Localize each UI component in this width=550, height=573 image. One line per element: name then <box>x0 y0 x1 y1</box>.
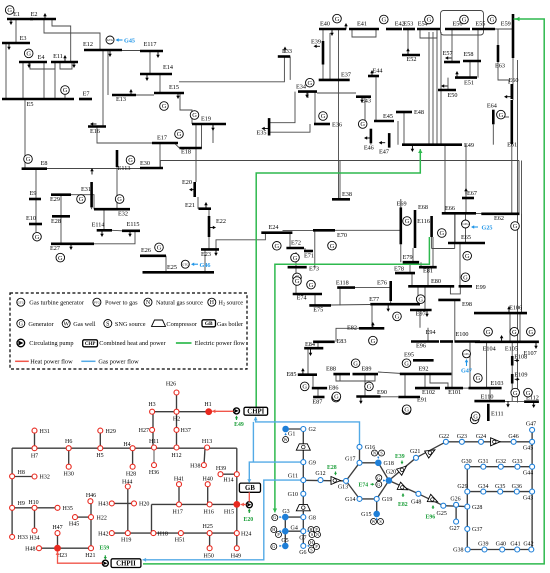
legend H2 source <box>208 298 216 306</box>
wire <box>447 78 449 90</box>
svg-text:Heat power flow: Heat power flow <box>30 359 73 366</box>
gas pipe <box>467 466 532 468</box>
generator G45 <box>402 406 411 415</box>
generator G5 <box>175 130 184 139</box>
generator G12 <box>155 243 164 252</box>
gas node G28 <box>465 504 470 509</box>
legend electric power flow <box>176 342 192 344</box>
heat node H18 <box>151 531 156 536</box>
heat pipe <box>152 412 154 449</box>
wire <box>381 396 399 398</box>
load arrow <box>372 324 374 329</box>
gas node G1 <box>283 426 289 432</box>
svg-text:H21: H21 <box>85 553 95 559</box>
generator G14 <box>306 78 315 87</box>
bus E89 <box>353 373 379 376</box>
gas turbine generator U-G25 <box>462 220 470 228</box>
wire <box>364 374 366 396</box>
svg-text:G47: G47 <box>461 368 472 375</box>
bus E98 <box>438 299 460 302</box>
svg-text:G: G <box>513 390 518 397</box>
wire <box>476 213 483 215</box>
gas node G23 <box>459 439 464 444</box>
gas turbine generator U-G45 <box>106 36 114 44</box>
svg-text:H13: H13 <box>202 439 212 445</box>
svg-text:SNG source: SNG source <box>115 321 146 328</box>
svg-text:E16: E16 <box>90 128 100 135</box>
svg-text:E8: E8 <box>41 160 48 167</box>
svg-text:E118: E118 <box>336 280 349 287</box>
svg-text:G22: G22 <box>439 434 449 440</box>
wire <box>314 294 316 305</box>
bus E58 <box>463 60 481 63</box>
wire <box>15 19 17 43</box>
heat node H38 <box>201 463 206 468</box>
load arrow <box>130 91 132 96</box>
gas pipe <box>468 549 532 551</box>
gas pipe <box>302 429 304 546</box>
svg-text:E99: E99 <box>476 284 486 291</box>
generator G22 <box>497 110 506 119</box>
wire <box>5 43 7 99</box>
generator G46 <box>511 388 520 397</box>
heat pipe <box>152 503 237 505</box>
svg-text:G25: G25 <box>482 225 493 232</box>
wire <box>269 92 295 123</box>
svg-text:G: G <box>427 17 432 24</box>
wire <box>283 230 317 232</box>
gas node G40 <box>500 547 505 552</box>
gas flow to CHPII <box>144 480 301 560</box>
svg-text:E20: E20 <box>182 179 192 186</box>
heat node H45 <box>73 515 78 520</box>
svg-text:G: G <box>157 245 162 252</box>
load arrow <box>507 401 509 406</box>
svg-text:E69: E69 <box>397 201 407 208</box>
wire <box>459 243 461 286</box>
svg-text:E7: E7 <box>83 91 90 98</box>
gas pipe <box>360 462 379 464</box>
svg-text:G: G <box>19 322 24 328</box>
wire <box>22 62 24 99</box>
svg-text:E89: E89 <box>362 366 372 373</box>
wire <box>469 61 471 78</box>
gas node G35 <box>498 489 503 494</box>
heat pipe <box>132 448 134 467</box>
gas node G6 <box>301 543 306 548</box>
generator G25 <box>438 229 447 238</box>
gas node G11 <box>301 478 306 483</box>
generator G20 <box>460 15 469 24</box>
svg-text:G: G <box>272 544 275 549</box>
wire <box>307 348 309 375</box>
wire <box>339 375 341 382</box>
svg-text:E96: E96 <box>416 343 426 350</box>
svg-text:E91: E91 <box>417 397 427 404</box>
wire <box>431 237 433 249</box>
wire <box>460 387 469 389</box>
load arrow <box>411 146 413 151</box>
bus E61 <box>510 100 513 144</box>
wire <box>71 195 94 210</box>
bus E34 <box>298 90 317 93</box>
svg-text:E113: E113 <box>118 165 131 172</box>
wire <box>352 29 376 37</box>
svg-text:E87: E87 <box>312 399 322 406</box>
gas node G34 <box>481 489 486 494</box>
GTG at G20 <box>376 475 382 481</box>
svg-text:E12: E12 <box>83 41 93 48</box>
svg-text:E57: E57 <box>443 50 453 57</box>
svg-text:E35: E35 <box>257 130 267 137</box>
svg-text:E55: E55 <box>475 21 485 28</box>
svg-text:E71: E71 <box>304 253 314 260</box>
wire <box>432 237 434 267</box>
load arrow <box>426 311 428 316</box>
gas node G4 <box>282 528 288 534</box>
bus E15 <box>154 92 184 95</box>
heat pipe <box>39 547 91 549</box>
gas node G37 <box>465 526 470 531</box>
wire <box>355 287 391 289</box>
svg-text:G35: G35 <box>495 484 505 490</box>
load arrow <box>366 137 371 139</box>
gas node G38 <box>465 547 470 552</box>
svg-text:E115: E115 <box>127 221 140 228</box>
heat node H50 <box>207 546 212 551</box>
gas pipe <box>466 467 468 550</box>
svg-text:E104: E104 <box>483 345 496 352</box>
load arrow <box>109 51 111 56</box>
generator G42 <box>510 327 519 336</box>
GB box <box>239 483 260 492</box>
wire <box>295 252 297 267</box>
svg-text:E101: E101 <box>448 389 461 396</box>
svg-text:E82: E82 <box>398 502 408 508</box>
svg-text:E68: E68 <box>418 204 428 211</box>
svg-text:H40: H40 <box>203 477 213 483</box>
wire <box>107 50 109 95</box>
load arrow <box>310 350 312 355</box>
bus E101 <box>445 387 463 390</box>
bus E14 <box>140 73 172 76</box>
generator G11 <box>56 253 65 262</box>
sources at G4 <box>271 527 277 533</box>
heat pipe <box>151 504 153 533</box>
svg-text:E28: E28 <box>327 465 337 471</box>
wire <box>518 161 520 214</box>
svg-text:E83: E83 <box>337 338 347 345</box>
svg-text:H10: H10 <box>28 500 38 506</box>
svg-text:G41: G41 <box>510 542 520 548</box>
svg-text:Power to gas: Power to gas <box>105 300 138 307</box>
bus E27 <box>51 243 94 246</box>
svg-text:E52: E52 <box>407 56 417 63</box>
gas node G25 <box>441 503 446 508</box>
wire <box>159 74 161 93</box>
svg-text:E22: E22 <box>216 218 226 225</box>
svg-text:E106: E106 <box>509 305 522 312</box>
CHPI pump <box>234 408 240 414</box>
generator G39 <box>416 295 425 304</box>
generator G16 <box>358 120 367 129</box>
generator G10 <box>33 232 42 241</box>
gas node G27 <box>454 519 459 524</box>
svg-text:E29: E29 <box>50 196 60 203</box>
svg-text:G36: G36 <box>512 484 522 490</box>
heat node H25 <box>207 531 212 536</box>
svg-text:E38: E38 <box>342 191 352 198</box>
svg-text:E3: E3 <box>20 35 27 42</box>
bus E97 <box>410 309 432 312</box>
heat pipe <box>152 411 209 413</box>
wire <box>428 32 430 145</box>
load arrow <box>10 19 12 24</box>
generator G30 <box>307 280 316 289</box>
svg-text:GTG: GTG <box>182 262 189 266</box>
heat node H13 <box>205 445 210 450</box>
svg-text:G: G <box>512 329 517 336</box>
wire <box>407 29 409 55</box>
generator G4 <box>190 111 199 120</box>
svg-text:H2 source: H2 source <box>218 300 243 307</box>
svg-text:E92: E92 <box>419 366 429 373</box>
wire <box>450 286 460 294</box>
svg-text:G8: G8 <box>309 515 316 521</box>
wire <box>64 94 66 99</box>
svg-text:E13: E13 <box>116 96 126 103</box>
wire <box>519 313 521 342</box>
gas node G47 <box>530 427 535 432</box>
heat node H2 <box>174 409 179 414</box>
bus E64 <box>492 110 495 125</box>
generator G21 <box>488 15 497 24</box>
wire <box>419 310 421 328</box>
bus E8 <box>22 167 47 170</box>
bus E38 <box>332 198 350 201</box>
svg-text:H11: H11 <box>149 439 159 445</box>
wire <box>116 167 118 209</box>
bus E109 <box>511 374 514 384</box>
svg-text:G: G <box>405 218 410 225</box>
bus E59 <box>512 14 515 58</box>
wire <box>403 112 405 145</box>
generator G32 <box>393 312 402 321</box>
bus E87 <box>313 396 324 399</box>
gas node G15 <box>374 511 380 517</box>
bus E9 <box>29 198 41 201</box>
svg-text:H34: H34 <box>29 536 39 542</box>
svg-text:E95: E95 <box>404 352 414 359</box>
bus E63 <box>497 45 500 62</box>
heat node H23 <box>55 545 61 551</box>
wire <box>521 214 523 313</box>
svg-text:G: G <box>58 255 63 262</box>
svg-text:H: H <box>210 300 215 306</box>
wire <box>35 224 37 232</box>
wire <box>312 375 314 388</box>
wire <box>30 62 55 69</box>
bus E42 <box>386 28 402 31</box>
wire <box>289 233 291 248</box>
svg-text:E75: E75 <box>313 307 323 314</box>
heat pipe <box>75 516 91 518</box>
svg-text:H33: H33 <box>18 535 28 541</box>
load arrow <box>263 128 268 130</box>
heat flow GB to H15 <box>242 504 246 506</box>
svg-text:G2: G2 <box>309 427 316 433</box>
svg-text:H31: H31 <box>40 429 50 435</box>
generator G31 <box>293 277 302 286</box>
svg-text:E49: E49 <box>234 422 244 428</box>
bus E17 <box>152 142 178 145</box>
gas pipe <box>346 463 360 481</box>
bus E75 <box>309 304 331 307</box>
load arrow <box>44 15 46 20</box>
bus E74 <box>293 293 322 296</box>
gas pipe <box>446 441 532 443</box>
wire <box>521 161 523 314</box>
heat pipe <box>12 507 57 509</box>
svg-text:G44: G44 <box>523 470 533 476</box>
svg-text:G38: G38 <box>453 548 463 554</box>
gas node G41 <box>515 547 520 552</box>
generator G19 <box>425 15 434 24</box>
gas pipe <box>346 481 360 499</box>
heat node H30 <box>66 464 71 469</box>
wire <box>432 32 434 145</box>
load arrow <box>212 125 214 130</box>
svg-text:E73: E73 <box>309 266 319 273</box>
gas node G24 <box>479 439 484 444</box>
svg-text:G12: G12 <box>315 471 325 477</box>
heat pipe <box>34 508 36 531</box>
load arrow <box>315 45 320 47</box>
bus E54 <box>417 28 440 31</box>
svg-text:E67: E67 <box>467 190 477 197</box>
bus E21 <box>199 207 212 210</box>
gas node G14 <box>357 496 362 501</box>
wire <box>307 92 309 98</box>
svg-text:H39: H39 <box>216 466 226 472</box>
bus E13 <box>112 94 136 97</box>
svg-text:E34: E34 <box>296 84 306 91</box>
svg-text:E20: E20 <box>244 517 254 523</box>
bus E77 <box>370 303 420 306</box>
generator G0 <box>5 6 14 15</box>
svg-text:G: G <box>404 406 409 413</box>
gas node G39 <box>482 547 487 552</box>
heat node H32 <box>32 474 37 479</box>
heat node H29 <box>98 428 103 433</box>
wire <box>370 143 372 144</box>
svg-text:G: G <box>26 156 31 163</box>
load arrow <box>381 142 386 144</box>
svg-text:H18: H18 <box>158 531 168 537</box>
gas pipe <box>284 517 286 546</box>
wire <box>336 328 359 342</box>
gas pipe <box>378 463 389 481</box>
gas node G13 <box>344 478 349 483</box>
bus E44 <box>368 75 379 78</box>
svg-text:E109: E109 <box>514 371 527 378</box>
bus E83 <box>313 340 335 343</box>
svg-text:E41: E41 <box>357 21 367 28</box>
wire <box>430 374 448 388</box>
generator G27 <box>328 241 337 250</box>
svg-text:H37: H37 <box>181 428 191 434</box>
heat pipe <box>99 431 101 449</box>
bus E40 <box>319 28 346 31</box>
gas pipe <box>467 491 532 493</box>
heat node H33 <box>10 534 15 539</box>
wire <box>412 248 414 262</box>
svg-text:H42: H42 <box>98 531 108 537</box>
bus E3 <box>2 42 30 45</box>
svg-text:E76: E76 <box>377 280 387 287</box>
wire <box>420 262 422 267</box>
heat node H27 <box>150 427 155 432</box>
wire <box>511 144 513 214</box>
gas pipe <box>376 499 378 514</box>
svg-text:H25: H25 <box>203 524 213 530</box>
gas turbine generator U-G46 <box>181 260 189 268</box>
heat pipe <box>57 533 59 548</box>
heat pipe <box>12 447 237 449</box>
load arrow <box>387 305 389 310</box>
heat pipe <box>176 393 178 449</box>
svg-text:G45: G45 <box>523 446 533 452</box>
wire <box>314 230 316 268</box>
sources at G7 <box>308 527 314 533</box>
svg-text:G27: G27 <box>449 526 459 532</box>
bus E65 <box>448 242 485 245</box>
bus E4 <box>19 61 47 64</box>
bus E85 <box>298 373 317 376</box>
heat node H51 <box>178 531 183 536</box>
wire <box>509 313 511 342</box>
svg-text:G: G <box>528 329 533 336</box>
legend power to gas <box>93 298 101 306</box>
bus E110 <box>474 400 505 403</box>
svg-text:G: G <box>334 394 339 401</box>
svg-text:G23: G23 <box>457 434 467 440</box>
gas node G22 <box>443 439 448 444</box>
generator G26 <box>403 217 412 226</box>
bus E62 <box>481 213 519 216</box>
generator G35 <box>365 382 374 391</box>
svg-text:G: G <box>273 515 276 520</box>
legend CHP <box>83 340 98 347</box>
svg-text:H50: H50 <box>204 554 214 560</box>
svg-text:G30: G30 <box>461 459 471 465</box>
heat node H35 <box>55 505 60 510</box>
load arrow <box>177 93 179 98</box>
svg-text:H38: H38 <box>190 463 200 469</box>
generator G13 <box>273 242 282 251</box>
svg-text:E15: E15 <box>169 84 179 91</box>
bus E10 <box>29 223 42 226</box>
gas node G18 <box>375 460 381 466</box>
bus E73 <box>288 266 307 269</box>
wire <box>135 94 154 96</box>
svg-text:Compressor: Compressor <box>166 321 197 328</box>
svg-text:E28: E28 <box>51 218 61 225</box>
load arrow <box>447 57 452 59</box>
svg-text:G33: G33 <box>512 459 522 465</box>
generator G17 <box>333 14 342 23</box>
bus E102 <box>415 387 440 390</box>
